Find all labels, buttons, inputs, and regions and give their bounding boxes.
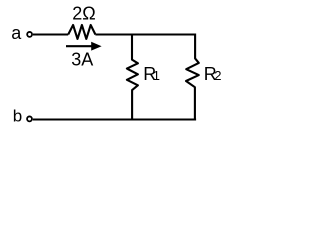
current arrow — [66, 45, 93, 47]
wire — [33, 33, 68, 35]
wire — [33, 118, 196, 120]
svg-text:2Ω: 2Ω — [72, 4, 95, 24]
svg-text:a: a — [11, 23, 22, 43]
resistor R2 — [186, 34, 199, 120]
svg-text:b: b — [13, 106, 22, 125]
terminal a — [27, 32, 32, 37]
resistor R1 — [127, 34, 138, 120]
terminal b — [27, 116, 32, 121]
svg-text:2: 2 — [214, 68, 221, 83]
wire — [95, 33, 195, 35]
svg-text:1: 1 — [153, 68, 160, 83]
svg-text:3A: 3A — [71, 50, 93, 70]
resistor 2ohm — [68, 25, 95, 39]
